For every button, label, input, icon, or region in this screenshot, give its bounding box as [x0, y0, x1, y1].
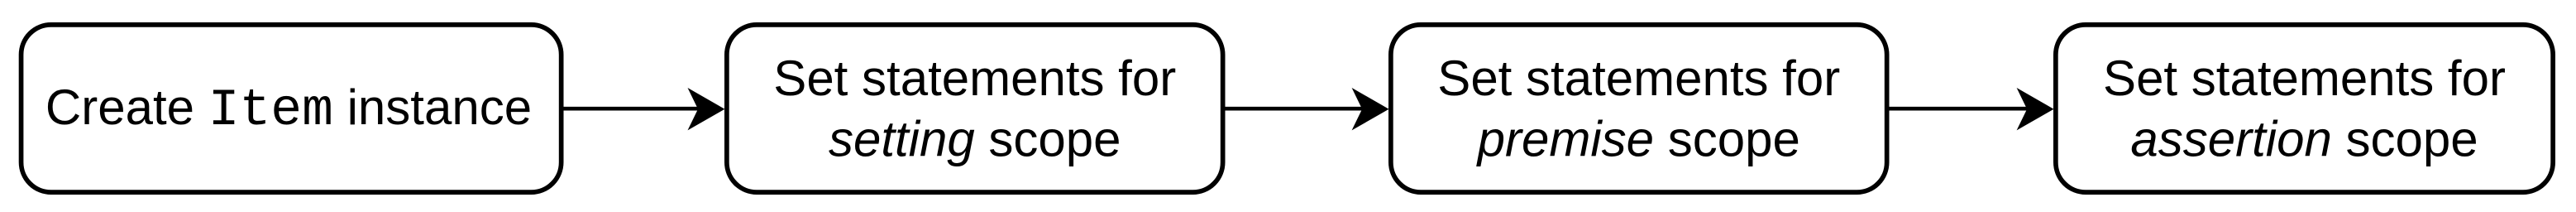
wire arrow 1 — [562, 88, 724, 130]
svg-text:setting scope: setting scope — [829, 111, 1121, 166]
wire arrow 3 — [1889, 88, 2054, 130]
svg-text:premise scope: premise scope — [1476, 111, 1800, 166]
svg-text:Set statements for: Set statements for — [1437, 51, 1840, 106]
box 2: Set statements for setting scope — [727, 25, 1223, 192]
box 3: Set statements for premise scope — [1391, 25, 1887, 192]
box 1: Create Item instance — [22, 25, 562, 192]
wire arrow 2 — [1225, 88, 1389, 130]
svg-text:Set statements for: Set statements for — [773, 51, 1176, 106]
svg-text:Create Item instance: Create Item instance — [45, 79, 532, 140]
svg-text:Set statements for: Set statements for — [2103, 51, 2506, 106]
svg-text:assertion scope: assertion scope — [2130, 111, 2478, 166]
box 4: Set statements for assertion scope — [2056, 25, 2553, 192]
